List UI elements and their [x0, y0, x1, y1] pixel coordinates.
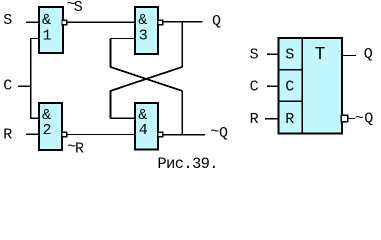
svg-text:3: 3 — [139, 27, 148, 44]
svg-text:1: 1 — [43, 27, 52, 44]
NAND gate 4 body — [135, 103, 158, 150]
gate 4 inversion bubble — [158, 132, 163, 137]
wire C input right block — [267, 85, 279, 87]
NAND gate 1 body — [39, 7, 63, 53]
wire R input right block — [265, 118, 279, 120]
svg-text:Q: Q — [212, 13, 221, 30]
gate 2 inversion bubble — [62, 132, 67, 137]
svg-text:~: ~ — [355, 110, 364, 127]
wire ~R rail from gate 2 to gate 4 — [67, 134, 134, 136]
T block C/R cell divider — [278, 100, 303, 102]
svg-text:S: S — [250, 47, 259, 64]
svg-text:C: C — [250, 79, 259, 96]
svg-text:R: R — [75, 141, 84, 158]
T block inversion bubble for ~Q — [341, 115, 347, 121]
wire S input right block — [267, 53, 279, 55]
svg-text:R: R — [3, 126, 12, 143]
svg-text:Q: Q — [219, 125, 228, 142]
svg-text:T: T — [315, 45, 326, 65]
svg-text:Рис.39.: Рис.39. — [157, 155, 218, 171]
wire S input — [26, 21, 38, 23]
svg-text:C: C — [285, 79, 294, 96]
wire gate4 input1 stub — [110, 117, 135, 119]
svg-text:S: S — [74, 0, 83, 16]
wire Q output — [163, 21, 203, 23]
T block S/C cell divider — [278, 69, 303, 71]
wire cross-couple left upper vertical — [110, 39, 112, 67]
svg-text:S: S — [285, 47, 294, 64]
gate 3 inversion bubble — [158, 20, 163, 25]
svg-text:Q: Q — [364, 111, 373, 128]
svg-text:Q: Q — [364, 46, 373, 63]
svg-text:C: C — [3, 77, 12, 94]
svg-text:S: S — [3, 12, 12, 29]
T flip-flop block body — [279, 38, 343, 134]
wire ~Q output right block — [348, 118, 355, 120]
wire ~S rail from gate 1 to gate 3 — [67, 21, 134, 23]
wire R input — [26, 133, 38, 135]
wire cross-couple diagonal from Q side down — [110, 67, 182, 91]
svg-text:~: ~ — [210, 124, 219, 141]
wire junction vertical to ~Q rail — [181, 91, 183, 135]
wire Q output right block — [343, 55, 356, 57]
svg-text:4: 4 — [139, 122, 148, 139]
wire C branch to gate 2 input 1 — [30, 117, 39, 119]
wire C branch to gate 1 input 2 — [30, 38, 39, 40]
wire C vertical branch — [30, 39, 32, 119]
svg-text:2: 2 — [43, 122, 52, 139]
NAND gate 2 body — [39, 103, 62, 150]
gate 1 inversion bubble — [62, 20, 67, 25]
T block input column divider — [301, 37, 303, 135]
wire gate3 input2 stub — [110, 38, 135, 40]
wire C input — [18, 85, 31, 87]
wire ~Q output — [163, 134, 205, 136]
svg-text:R: R — [250, 111, 259, 128]
NAND gate 3 body — [135, 7, 158, 54]
wire cross-couple diagonal rising — [110, 67, 182, 91]
wire junction vertical from Q rail — [181, 22, 183, 67]
svg-text:R: R — [285, 111, 294, 128]
wire cross-couple left lower vertical — [110, 91, 112, 118]
